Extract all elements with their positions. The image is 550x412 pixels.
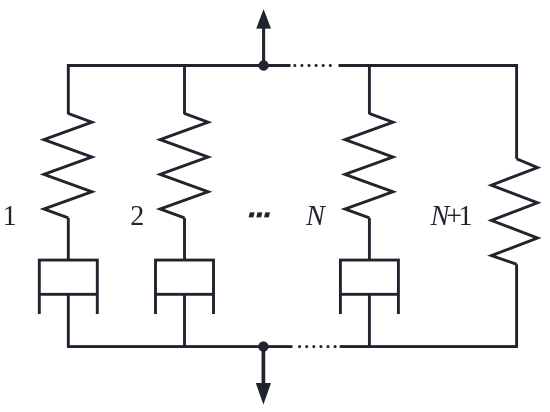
wire branch N top stub xyxy=(368,66,371,115)
spring N+1 xyxy=(491,159,537,264)
bottom force arrow xyxy=(256,347,271,405)
node top junction dot xyxy=(258,60,268,70)
wire top rail left solid segment with corner down to branch 1 xyxy=(68,66,290,115)
wire spring N to dashpot N xyxy=(368,218,371,261)
wire bottom rail dotted segment xyxy=(298,345,337,348)
dashpot 1 cylinder xyxy=(39,260,97,314)
spring 1 xyxy=(44,114,92,218)
node bottom junction dot xyxy=(258,341,268,351)
dashpot 2 cylinder xyxy=(156,260,214,314)
wire top rail dotted segment xyxy=(293,64,332,67)
wire spring 2 to dashpot 2 xyxy=(183,218,186,261)
ellipsis between branch 2 and branch N xyxy=(249,212,270,217)
wire dashpot 2 piston rod to bottom rail xyxy=(183,294,186,346)
dashpot N cylinder xyxy=(340,260,398,314)
dashpot 2 piston plate xyxy=(156,293,214,296)
svg-text:2: 2 xyxy=(130,201,144,232)
svg-text:N+1: N+1 xyxy=(430,201,473,232)
wire top rail right solid segment with corner down to branch N+1 xyxy=(339,66,517,159)
wire spring N+1 to bottom rail with corner xyxy=(340,264,517,346)
wire dashpot 1 piston rod to bottom rail xyxy=(67,294,70,346)
wire bottom rail left solid segment xyxy=(67,345,293,348)
spring N xyxy=(345,114,393,218)
svg-text:1: 1 xyxy=(3,201,17,232)
svg-text:N: N xyxy=(305,201,326,232)
dashpot N piston plate xyxy=(340,293,398,296)
top force arrow xyxy=(256,9,271,66)
dashpot 1 piston plate xyxy=(39,293,97,296)
spring 2 xyxy=(160,114,208,218)
wire spring 1 to dashpot 1 xyxy=(67,218,70,261)
wire dashpot N piston rod to bottom rail xyxy=(368,294,371,346)
wire branch 2 top stub xyxy=(183,66,186,115)
